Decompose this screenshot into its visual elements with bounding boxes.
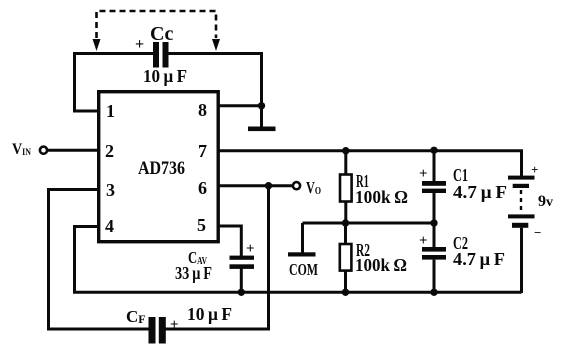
resistor R2 (344, 223, 347, 245)
ground COM (288, 252, 316, 256)
svg-text:100k Ω: 100k Ω (355, 255, 407, 275)
svg-text:33 μ F: 33 μ F (175, 263, 212, 283)
svg-text:5: 5 (197, 215, 206, 235)
op-amp U1 AD736 (99, 92, 219, 242)
wire CF right segment (166, 186, 269, 329)
wire pin5 to CAV (218, 226, 241, 257)
svg-text:1: 1 (106, 101, 115, 121)
capacitor CAV (230, 256, 255, 269)
wire right vertical Cc to ground (260, 52, 263, 128)
svg-text:8: 8 (198, 100, 207, 120)
wire pin6 output (218, 184, 293, 187)
arrowhead left (93, 39, 101, 51)
wire pin3 loop left (49, 190, 149, 330)
svg-text:+: + (419, 166, 428, 182)
battery internal dashed link (520, 190, 522, 212)
node pin6 / CF (265, 182, 272, 189)
wire Cc top horizontal (73, 52, 263, 55)
node C2 bottom (430, 289, 437, 296)
svg-text:COM: COM (289, 260, 318, 279)
svg-text:6: 6 (198, 178, 207, 198)
wire CAV bottom (240, 268, 243, 292)
terminal Vo (293, 182, 300, 189)
svg-text:2: 2 (105, 141, 114, 161)
svg-text:10 μ F: 10 μ F (187, 304, 232, 324)
svg-text:+: + (170, 317, 179, 333)
svg-text:7: 7 (198, 141, 207, 161)
svg-text:+: + (135, 36, 144, 53)
dashed feedback outline top (97, 11, 217, 38)
wire battery bottom (520, 228, 523, 293)
wire pin4 loop (75, 227, 99, 293)
svg-text:3: 3 (106, 180, 115, 200)
svg-text:4.7 μ F: 4.7 μ F (453, 182, 507, 202)
capacitor C2 (433, 223, 436, 248)
wire left vertical pin1 to Cc (75, 52, 99, 111)
wire pin7 to battery top (218, 151, 522, 176)
node C1 top (430, 147, 437, 154)
svg-text:−: − (534, 225, 541, 240)
svg-text:10 μ F: 10 μ F (143, 66, 187, 86)
svg-text:Cc: Cc (150, 23, 173, 45)
arrowhead right (212, 39, 220, 51)
svg-text:+: + (246, 241, 255, 257)
node junction pin8 (258, 102, 265, 109)
svg-text:AD736: AD736 (138, 158, 185, 179)
node R1/R2 mid (342, 219, 349, 226)
capacitor C1 (433, 150, 436, 182)
node R1 top (342, 147, 349, 154)
wire bottom supply rail (73, 291, 522, 294)
node R2 bottom (342, 289, 349, 296)
svg-text:+: + (419, 233, 428, 249)
wire pin2 input (48, 149, 99, 152)
terminal Vin (40, 147, 47, 154)
capacitor CF (149, 317, 166, 344)
wire COM branch (301, 223, 304, 253)
svg-text:9v: 9v (538, 193, 553, 210)
capacitor Cc (153, 42, 169, 68)
ground (pin8) (248, 127, 276, 132)
svg-text:4: 4 (105, 216, 114, 236)
svg-text:4.7 μ F: 4.7 μ F (453, 249, 505, 269)
node C1/C2 mid (430, 219, 437, 226)
wire pin8 stub (218, 104, 262, 107)
node CAV bottom (238, 289, 245, 296)
wire mid rail (303, 222, 435, 225)
battery B1 9V (508, 176, 535, 228)
svg-text:+: + (531, 162, 538, 177)
resistor R1 (344, 151, 347, 175)
svg-text:100k Ω: 100k Ω (355, 187, 408, 207)
